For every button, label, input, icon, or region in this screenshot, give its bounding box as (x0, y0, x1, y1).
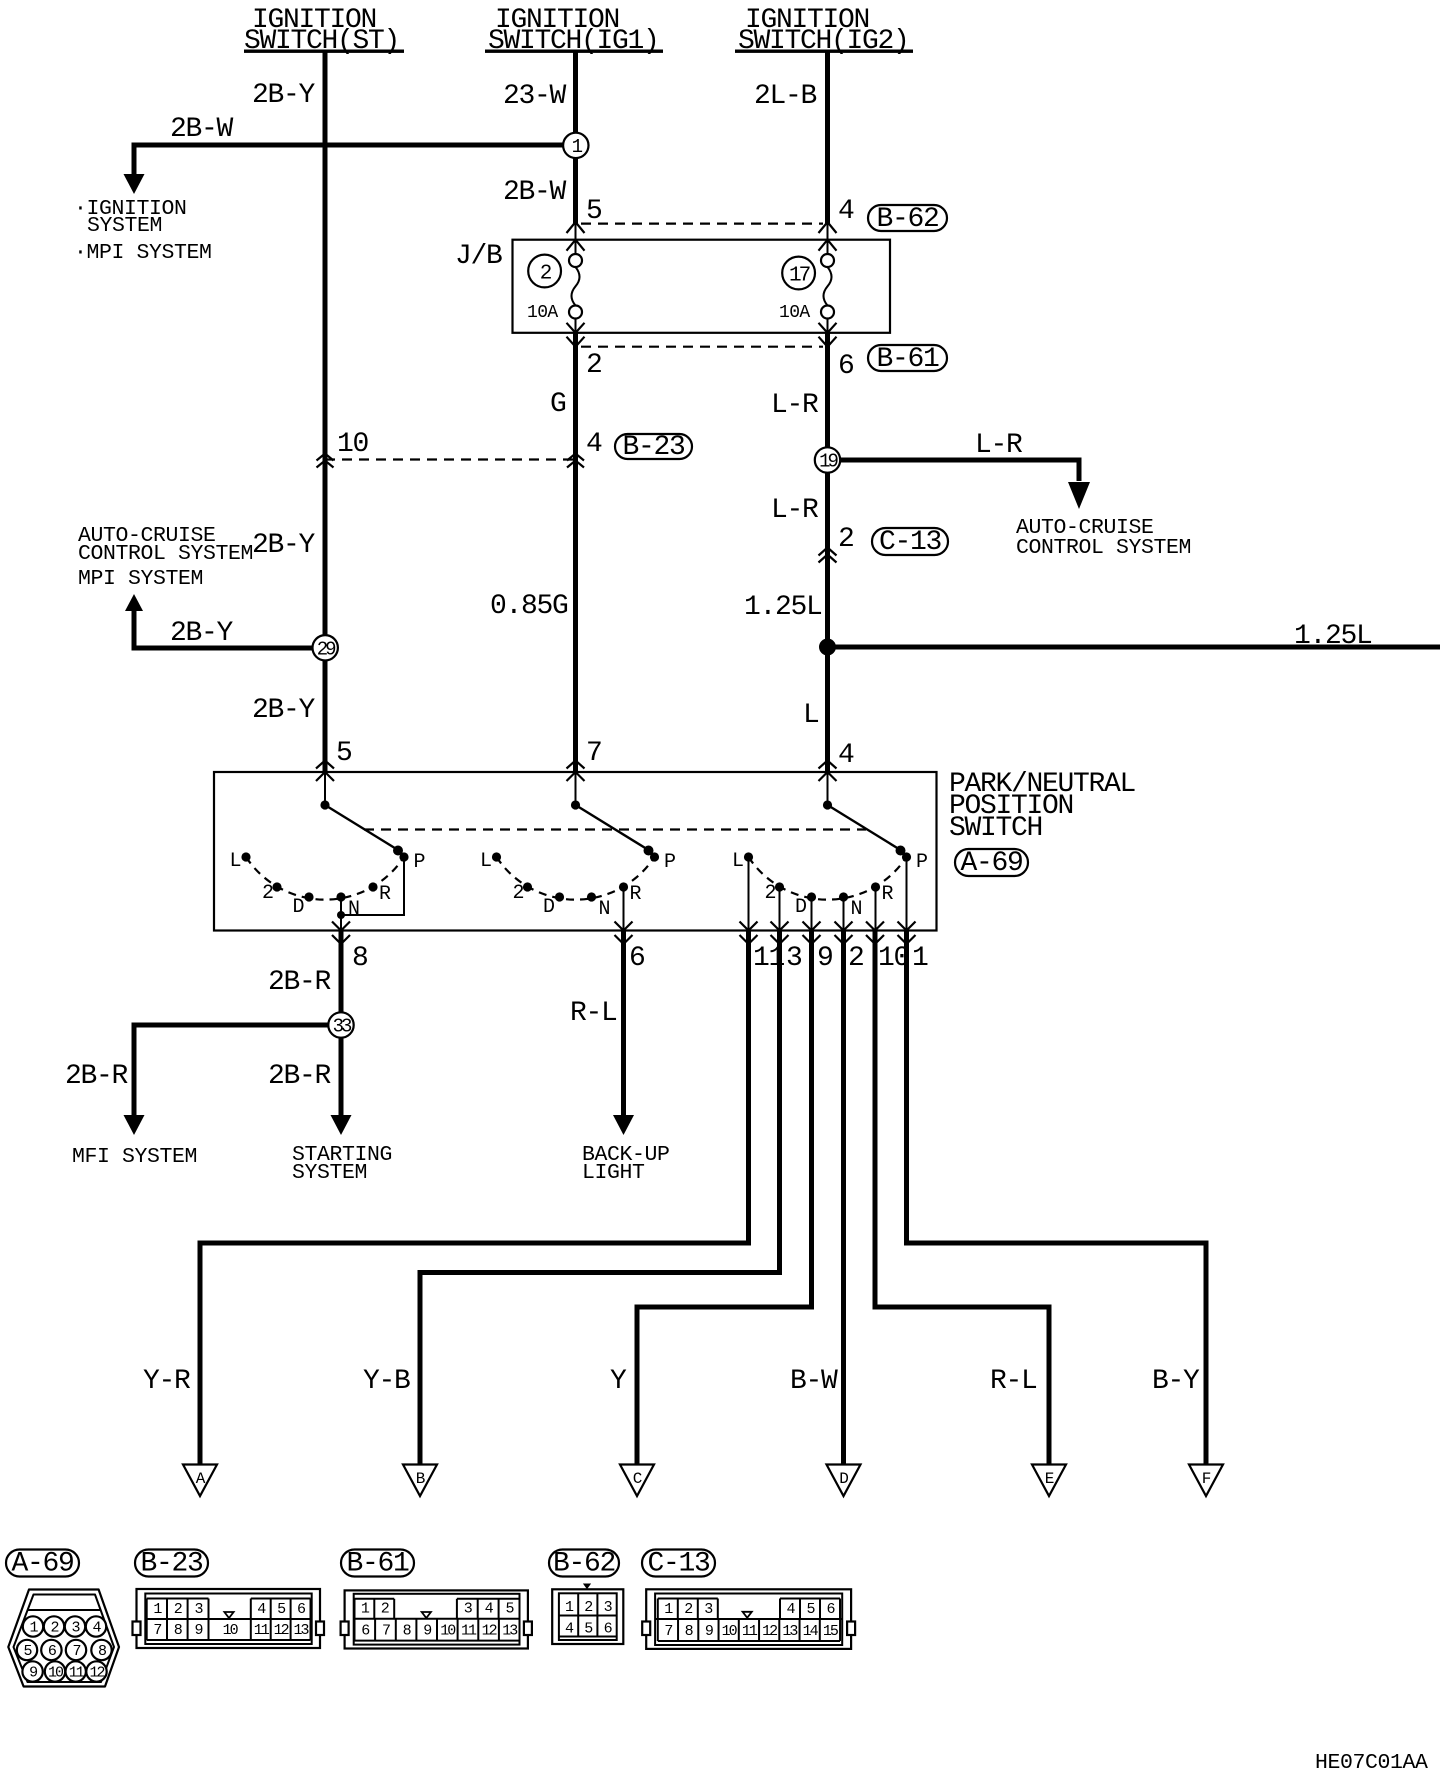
svg-text:3: 3 (786, 943, 802, 974)
switch unit 3 pivot and arm (823, 772, 906, 856)
svg-text:2: 2 (848, 943, 864, 974)
wire pin 11 to connector A (200, 931, 749, 1478)
svg-text:B-61: B-61 (876, 344, 939, 375)
svg-text:2: 2 (838, 524, 854, 555)
svg-text:2B-R: 2B-R (65, 1061, 129, 1092)
svg-text:29: 29 (317, 639, 336, 661)
svg-text:Y-B: Y-B (363, 1366, 410, 1397)
wire 2B-Y branch to MPI system (125, 594, 313, 648)
wire pin 3 to connector B (420, 931, 780, 1478)
svg-text:11: 11 (461, 1623, 477, 1640)
pin 1 at A-69 bottom (898, 922, 929, 975)
switch unit 1 output wiring P to N (337, 857, 404, 931)
svg-text:C-13: C-13 (647, 1549, 710, 1580)
svg-text:4: 4 (586, 429, 602, 460)
label PARK/NEUTRAL POSITION SWITCH (949, 769, 1136, 844)
node joint 33 (328, 1012, 353, 1037)
svg-text:8: 8 (352, 943, 368, 974)
svg-text:B-W: B-W (790, 1366, 838, 1397)
svg-text:Y-R: Y-R (143, 1366, 191, 1397)
pin 11 at A-69 bottom (740, 922, 785, 975)
svg-text:2: 2 (586, 350, 602, 381)
connector label B-62 (868, 204, 947, 235)
svg-text:7: 7 (586, 738, 602, 769)
svg-text:L-R: L-R (771, 495, 819, 526)
connector label A-69 bottom (6, 1549, 79, 1580)
wire 2B-R branch to MFI (124, 1025, 329, 1135)
svg-text:MFI SYSTEM: MFI SYSTEM (72, 1145, 197, 1169)
svg-text:7: 7 (72, 1643, 80, 1660)
wire pin 2 to connector D (841, 931, 846, 1478)
svg-text:23-W: 23-W (503, 81, 567, 112)
svg-text:2B-Y: 2B-Y (252, 80, 316, 111)
svg-text:·MPI SYSTEM: ·MPI SYSTEM (74, 241, 212, 265)
pin 2 at A-69 bottom (835, 922, 864, 975)
svg-text:9: 9 (423, 1623, 431, 1640)
svg-text:14: 14 (803, 1623, 819, 1640)
node joint 29 (313, 635, 338, 660)
svg-text:9: 9 (817, 943, 833, 974)
switch unit 3 output wiring from all contacts (749, 857, 907, 931)
svg-text:9: 9 (29, 1665, 37, 1682)
svg-text:12: 12 (89, 1665, 104, 1682)
wire 1.25L to right edge (828, 645, 1440, 650)
node junction dot 1.25L (819, 639, 836, 656)
svg-text:11: 11 (254, 1622, 270, 1639)
svg-text:2: 2 (684, 1601, 692, 1618)
svg-text:G: G (550, 389, 566, 420)
svg-text:HE07C01AA: HE07C01AA (1315, 1751, 1428, 1775)
svg-text:5: 5 (336, 738, 352, 769)
svg-text:L: L (803, 700, 819, 731)
node connector D triangle (827, 1465, 861, 1497)
pin 8 at A-69 bottom (332, 922, 368, 975)
svg-text:LIGHT: LIGHT (582, 1161, 645, 1185)
svg-text:L-R: L-R (771, 390, 819, 421)
svg-text:0.85G: 0.85G (490, 591, 568, 622)
svg-text:B-62: B-62 (876, 204, 938, 235)
pin 6 IG2 at B-61 (819, 323, 854, 382)
svg-text:10: 10 (223, 1622, 239, 1639)
svg-text:2: 2 (584, 1599, 592, 1616)
wire pin 9 to connector C (637, 931, 812, 1478)
park/neutral position switch box A-69 (214, 772, 937, 931)
svg-text:A-69: A-69 (960, 848, 1022, 879)
svg-text:C: C (633, 1470, 642, 1488)
svg-text:1: 1 (912, 943, 928, 974)
svg-text:7: 7 (382, 1623, 390, 1640)
connector label B-62 bottom (549, 1549, 619, 1580)
wire dashed connector line B-62 top (581, 223, 823, 225)
svg-text:A-69: A-69 (11, 1549, 73, 1580)
wire L-R branch to auto-cruise (840, 460, 1090, 509)
pin 6 at A-69 bottom (615, 922, 645, 975)
svg-text:CONTROL SYSTEM: CONTROL SYSTEM (78, 542, 253, 566)
node IGNITION SYSTEM / MPI SYSTEM destination (74, 197, 212, 265)
connector B-23 pin view (133, 1589, 325, 1648)
wire IG2 bus vertical (825, 52, 830, 772)
svg-text:33: 33 (333, 1016, 352, 1038)
svg-text:B-23: B-23 (622, 432, 685, 463)
switch unit 1 pivot and arm (320, 772, 403, 856)
svg-text:2B-Y: 2B-Y (252, 695, 316, 726)
pin 2 IG2 at C-13 (819, 524, 854, 563)
switch unit 1 contacts L 2 D N R P (230, 850, 425, 921)
svg-text:2: 2 (381, 1601, 389, 1618)
node IGNITION SWITCH(IG1) (485, 5, 663, 57)
pin 2 IG1 at B-61 (567, 323, 602, 381)
svg-text:7: 7 (664, 1623, 672, 1640)
connector label B-23 (615, 432, 692, 463)
connector label A-69 (955, 848, 1028, 879)
svg-text:12: 12 (762, 1623, 777, 1640)
switch unit 2 contacts L 2 D N R P (480, 850, 675, 921)
svg-text:J/B: J/B (455, 241, 502, 272)
pin 4 IG2 at A-69 (819, 740, 855, 781)
svg-text:17: 17 (789, 265, 810, 288)
svg-text:2B-W: 2B-W (503, 177, 567, 208)
svg-text:D: D (839, 1470, 848, 1488)
svg-text:9: 9 (195, 1622, 203, 1639)
connector B-61 pin view (341, 1590, 532, 1648)
svg-text:2L-B: 2L-B (754, 81, 817, 112)
node joint 19 (815, 447, 840, 472)
svg-text:10: 10 (440, 1623, 456, 1640)
svg-text:SYSTEM: SYSTEM (292, 1161, 367, 1185)
pin 9 at A-69 bottom (803, 922, 833, 975)
svg-text:SYSTEM: SYSTEM (87, 214, 162, 238)
svg-text:B-62: B-62 (553, 1549, 615, 1580)
connector label C-13 bottom (642, 1549, 715, 1580)
svg-text:2B-Y: 2B-Y (170, 618, 234, 649)
svg-text:9: 9 (705, 1623, 713, 1640)
svg-text:B-61: B-61 (346, 1549, 409, 1580)
pin 7 IG1 at A-69 (567, 738, 602, 781)
svg-text:13: 13 (294, 1622, 310, 1639)
svg-text:E: E (1045, 1470, 1054, 1488)
svg-text:C-13: C-13 (879, 527, 942, 558)
svg-text:B-23: B-23 (140, 1549, 203, 1580)
node BACK-UP LIGHT (582, 1143, 670, 1185)
wire dashed line inside switch (364, 828, 866, 830)
svg-text:11: 11 (69, 1665, 85, 1682)
wire pin 1 to connector F (907, 931, 1207, 1478)
pin 4 IG1 at B-23 (567, 429, 602, 468)
svg-text:12: 12 (482, 1623, 497, 1640)
node IGNITION SWITCH(ST) (244, 5, 404, 57)
node STARTING SYSTEM (292, 1143, 392, 1185)
wire pin 10 to connector E (875, 931, 1049, 1478)
svg-text:13: 13 (782, 1623, 798, 1640)
node joint 1 (563, 133, 588, 158)
svg-text:R-L: R-L (570, 998, 617, 1029)
node IGNITION SWITCH(IG2) (735, 5, 913, 57)
svg-text:4: 4 (838, 740, 854, 771)
wire ST bus 2B-Y vertical (323, 52, 328, 772)
node connector B triangle (403, 1465, 437, 1497)
svg-text:2B-R: 2B-R (268, 967, 332, 998)
svg-text:B-Y: B-Y (1152, 1366, 1200, 1397)
connector label C-13 (872, 527, 948, 558)
pin 5 IG1 at B-62 (567, 196, 603, 251)
node connector A triangle (183, 1465, 217, 1497)
node connector C triangle (620, 1465, 654, 1497)
connector A-69 pin view (8, 1590, 119, 1687)
svg-text:R-L: R-L (990, 1366, 1037, 1397)
svg-text:19: 19 (819, 451, 838, 473)
svg-text:2B-W: 2B-W (170, 114, 234, 145)
svg-text:5: 5 (586, 196, 602, 227)
svg-text:SWITCH: SWITCH (949, 813, 1042, 844)
svg-text:2: 2 (50, 1620, 58, 1637)
junction block J/B (455, 240, 890, 333)
svg-text:1.25L: 1.25L (1294, 621, 1372, 652)
svg-text:1.25L: 1.25L (744, 592, 822, 623)
svg-text:4: 4 (838, 196, 854, 227)
pin 10 at A-69 bottom (866, 922, 910, 975)
svg-text:10A: 10A (527, 303, 558, 323)
svg-text:15: 15 (823, 1623, 839, 1640)
pin 5 ST at A-69 (316, 738, 352, 781)
node AUTO-CRUISE CONTROL SYSTEM left / MPI SYSTEM (78, 524, 253, 591)
svg-text:10: 10 (48, 1665, 64, 1682)
svg-text:2B-R: 2B-R (268, 1061, 332, 1092)
switch unit 1 contact arc (246, 857, 404, 900)
svg-text:10: 10 (337, 429, 369, 460)
svg-text:10A: 10A (779, 303, 810, 323)
switch unit 2 contact arc (497, 857, 655, 900)
svg-text:10: 10 (722, 1623, 738, 1640)
fuse 17 10A (779, 254, 834, 323)
wire dashed connector line B-23 (325, 458, 576, 460)
svg-text:6: 6 (838, 351, 854, 382)
pin 10 ST at B-23 (317, 429, 369, 468)
switch unit 3 contact arc (749, 857, 907, 900)
svg-text:A: A (196, 1470, 206, 1488)
node AUTO-CRUISE CONTROL SYSTEM right (1016, 516, 1191, 560)
connector C-13 pin view (642, 1589, 855, 1649)
svg-text:6: 6 (629, 943, 645, 974)
svg-text:7: 7 (153, 1622, 161, 1639)
svg-text:2B-Y: 2B-Y (252, 530, 316, 561)
wire 2B-W branch to ignition system (124, 145, 564, 194)
svg-text:MPI SYSTEM: MPI SYSTEM (78, 567, 203, 591)
wire pin 6 R-L to back-up light (613, 931, 634, 1136)
svg-text:11: 11 (742, 1623, 758, 1640)
wire dashed connector line B-61 bottom (581, 346, 823, 348)
connector B-62 pin view (552, 1584, 623, 1645)
svg-text:B: B (416, 1470, 425, 1488)
svg-text:13: 13 (502, 1623, 518, 1640)
switch unit 2 output wiring from R (623, 887, 625, 931)
svg-text:12: 12 (274, 1622, 289, 1639)
wire pin 8 2B-R down to joint 33 (331, 931, 352, 1136)
svg-text:Y: Y (610, 1366, 627, 1397)
switch unit 3 contacts L 2 D N R P (732, 850, 927, 921)
node connector E triangle (1032, 1465, 1066, 1497)
svg-text:CONTROL SYSTEM: CONTROL SYSTEM (1016, 536, 1191, 560)
svg-text:F: F (1202, 1470, 1211, 1488)
pin 4 IG2 at B-62 (819, 196, 855, 251)
svg-text:2: 2 (174, 1601, 182, 1618)
fuse 2 10A (527, 254, 582, 323)
wire IG1 bus vertical (573, 52, 578, 772)
connector label B-23 bottom (135, 1549, 208, 1580)
pin 3 at A-69 bottom (771, 922, 803, 975)
svg-text:L-R: L-R (975, 430, 1023, 461)
connector label B-61 bottom (341, 1549, 414, 1580)
switch unit 2 pivot and arm (571, 772, 654, 856)
connector label B-61 (868, 344, 947, 375)
node connector F triangle (1189, 1465, 1223, 1497)
